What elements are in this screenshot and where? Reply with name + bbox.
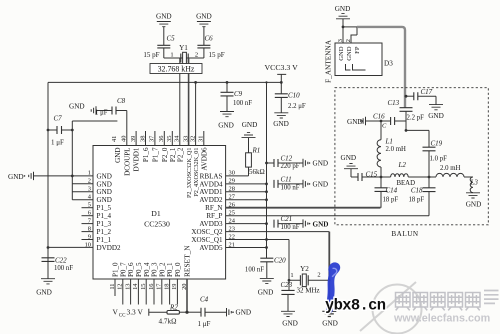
capacitor C17 [414,88,436,105]
svg-text:DCOUPL: DCOUPL [123,148,131,176]
svg-text:2.2 μF: 2.2 μF [288,103,306,110]
svg-text:CC2530: CC2530 [144,220,170,229]
svg-text:P0_6: P0_6 [127,262,135,277]
svg-text:C7: C7 [54,115,63,123]
svg-text:www.elecfans.com: www.elecfans.com [393,313,490,325]
svg-text:100 nF: 100 nF [233,100,252,107]
svg-text:P2_0: P2_0 [161,147,169,162]
wire VCC bus left [47,82,50,278]
wire XOSC32K_Q1 drop [179,58,181,146]
svg-text:C20: C20 [274,257,286,265]
capacitor C4 [198,296,227,329]
inductor L2 BEAD [381,161,430,187]
svg-text:2: 2 [317,272,320,279]
svg-text:15 pF: 15 pF [209,51,225,59]
wire RF_P pin25 [226,192,429,216]
pin 28 AVDD1 label [199,186,235,197]
svg-text:2: 2 [195,52,198,59]
svg-text:GND: GND [282,320,298,328]
svg-text:1 μF: 1 μF [51,139,64,147]
resistor R1 [246,138,261,176]
capacitor C11 [274,176,303,192]
svg-text:1: 1 [290,272,293,279]
wire AVDD5 pin21 [226,246,268,249]
svg-text:P0_3: P0_3 [151,262,159,277]
svg-text:13: 13 [124,284,131,290]
svg-text:2: 2 [345,39,352,42]
ground GND (above D3) [335,5,351,28]
svg-text:F_ANTENNA: F_ANTENNA [324,39,333,83]
crystal Y2 [288,265,330,287]
ground GND (right of C12) [303,159,328,168]
ground GND (right of C11) [303,180,328,189]
svg-text:220 pF: 220 pF [281,163,300,170]
svg-text:P2_4XOSC32K_01: P2_4XOSC32K_01 [193,148,200,197]
svg-text:1 μF: 1 μF [95,110,108,117]
svg-text:GND: GND [8,173,24,181]
svg-text:RF_P: RF_P [206,212,222,220]
svg-text:2.0 mH: 2.0 mH [386,146,406,153]
pin 16 P0_3 bottom [148,262,159,305]
svg-text:C10: C10 [288,92,300,100]
svg-text:33: 33 [182,136,189,142]
pin 10 DVDD2 [48,241,121,252]
svg-text:11: 11 [109,284,116,290]
svg-text:GND: GND [156,13,172,21]
svg-text:VCC3.3 V: VCC3.3 V [265,63,299,72]
ground GND (left of C16) [347,117,366,126]
svg-text:14: 14 [132,283,139,290]
svg-text:GND: GND [258,289,274,297]
svg-text:C12: C12 [281,155,293,163]
pin 18 P0_1 bottom [163,262,174,305]
svg-text:3.3 V: 3.3 V [127,308,144,317]
watermark url [393,313,490,325]
svg-text:12: 12 [117,284,124,290]
svg-text:DVDD1: DVDD1 [133,147,141,171]
pin 31 AVDD6 top [198,131,209,171]
pin 35 P2_1 top [166,131,177,162]
capacitor C14 [375,177,399,208]
capacitor C12 [267,155,304,170]
watermark text elecfans chinese [396,291,499,311]
svg-text:18 pF: 18 pF [409,197,425,204]
svg-text:GND: GND [36,289,52,297]
pin 2 GND [72,178,112,189]
pin 17 P0_2 bottom [156,262,167,305]
wire AVDD vertical [265,81,268,258]
svg-text:2: 2 [88,178,91,185]
svg-text:GND: GND [273,120,289,128]
svg-text:L2: L2 [398,161,407,169]
pin 40 DCOUPL top [121,136,132,176]
svg-text:100 nF: 100 nF [281,224,300,231]
watermark logo circle [360,282,422,334]
ground GND (below C9) [218,112,234,130]
svg-text:GND: GND [69,103,85,111]
svg-text:15 pF: 15 pF [143,51,159,59]
svg-text:L1: L1 [385,138,393,146]
svg-text:4.7kΩ: 4.7kΩ [159,318,177,326]
pin 3 GND [72,186,112,197]
capacitor C23 [281,280,294,311]
svg-text:P1_6: P1_6 [142,147,150,162]
svg-text:56kΩ: 56kΩ [249,168,265,176]
svg-text:P1_1: P1_1 [97,236,112,244]
svg-text:100 nF: 100 nF [245,267,264,274]
svg-text:31: 31 [198,136,205,142]
pin 5 P1_5 [82,202,112,213]
pin 4 GND [72,194,112,205]
svg-text:1.0 pF: 1.0 pF [430,156,448,163]
svg-text:C13: C13 [388,99,400,107]
power rail VCC [48,81,281,83]
svg-text:GND: GND [341,154,357,162]
pin 26 RF_N label [205,202,235,213]
svg-text:P1_5: P1_5 [97,204,112,212]
pin 7 P1_3 [82,217,112,228]
wire XOSC_Q1 pin22 [226,238,289,280]
svg-text:39: 39 [130,136,137,142]
inductor L3 [470,177,479,193]
capacitor C7 [48,115,72,147]
svg-text:C21: C21 [281,215,293,223]
label C23 32MHz [281,281,320,294]
pin 20 RESET_N bottom [181,245,192,312]
svg-text:C4: C4 [200,296,209,304]
node AVDD6 rail drop [194,81,197,146]
wire VCC3.3 rail bottom [113,308,168,319]
svg-text:100 nF: 100 nF [54,265,73,272]
ground GND (right of C4) [227,308,252,317]
svg-text:C6: C6 [205,35,214,43]
svg-text:ybx8.cn: ybx8.cn [325,297,386,315]
svg-text:38: 38 [139,136,146,142]
svg-text:34: 34 [174,135,181,142]
wire C8 to DCOUPL [126,111,128,146]
antenna part D3 box [335,43,393,76]
svg-text:GND: GND [114,148,122,163]
capacitor C21 [274,215,303,231]
pin 37 P1_7 top [149,131,160,162]
svg-text:RBLAS: RBLAS [200,172,223,180]
svg-text:9: 9 [88,233,91,240]
IC D1 CC2530 body [93,146,226,280]
svg-text:P0_0: P0_0 [174,262,182,277]
svg-text:RESET_N: RESET_N [183,245,192,277]
svg-text:GND: GND [97,196,112,204]
svg-text:100 nF: 100 nF [281,184,300,191]
wire crystal row [164,57,204,59]
pin 14 P0_5 bottom [132,262,143,305]
pin 8 P1_2 [82,225,112,236]
svg-text:32.768 kHz: 32.768 kHz [158,65,195,74]
svg-text:XOSC_Q2: XOSC_Q2 [191,228,223,236]
pin 36 P2_0 top [158,131,169,162]
ground GND (right of C21, bold) [303,219,328,228]
svg-text:D1: D1 [151,209,161,218]
svg-text:35: 35 [166,136,173,142]
wire C16 node to C19 row [405,121,429,132]
label F_ANTENNA [324,39,333,83]
svg-text:GND: GND [313,181,329,189]
wire RF_N pin26 [226,207,381,209]
svg-text:GND: GND [428,112,444,120]
pin 6 P1_4 [82,209,112,220]
svg-text:15: 15 [140,284,147,290]
wire XOSC_Q2 pin23 [226,231,330,233]
pin 13 P0_6 bottom [124,262,135,305]
svg-text:AVDD3: AVDD3 [199,220,223,228]
ground GND (above C6) [196,13,212,46]
wire AVDD1 pin28 [226,190,268,193]
svg-text:P0_7: P0_7 [119,262,127,277]
wire Y2 pin2 to gnd [328,232,331,312]
svg-text:GND: GND [196,13,212,21]
svg-text:P2_2: P2_2 [176,147,184,162]
capacitor C22 [42,248,74,279]
svg-text:C11: C11 [281,176,292,184]
capacitor C15 [358,171,382,182]
wire XOSC32K_Q2 drop [188,58,190,146]
svg-text:XOSC_Q1: XOSC_Q1 [191,236,223,244]
capacitor C19 [423,130,448,177]
wire AVDD4 pin29 [226,183,268,186]
capacitor C20 [245,257,286,279]
svg-text:C14: C14 [386,187,398,195]
svg-text:32: 32 [189,136,196,142]
ground GND (below C23) [281,311,298,327]
svg-text:GND: GND [97,180,112,188]
svg-text:18 pF: 18 pF [383,197,399,204]
ground GND (below L3) [466,193,482,209]
svg-text:P1_0: P1_0 [112,262,120,277]
wire antenna feed thick [343,27,405,108]
svg-text:BALUN: BALUN [391,230,419,238]
pin 32 P2_4XOSC32K_01 top [189,136,200,197]
antenna mark inside D3 [346,64,366,70]
svg-text:P0_1: P0_1 [166,262,174,277]
node antenna C17 branch [405,95,414,98]
svg-text:1: 1 [170,52,173,59]
label 56kOhm [249,168,265,176]
svg-text:GND: GND [97,172,112,180]
inductor 2.0mH (to L3) [429,165,473,177]
pin 33 P2_3XOSC32K_Q1 top [182,136,193,198]
svg-text:AVDD5: AVDD5 [199,244,223,252]
svg-text:P1_7: P1_7 [152,147,160,162]
label 32.768 kHz box [150,64,202,74]
wire C7 to GND net [71,121,118,200]
ground GND (below C22) [36,279,55,297]
svg-text:GND: GND [242,121,258,129]
svg-text:36: 36 [158,136,165,142]
ground GND (pin1 net) [8,172,34,181]
svg-text:GND: GND [313,160,329,168]
pin 1 GND [34,170,112,181]
svg-text:GND: GND [335,5,351,13]
svg-text:41: 41 [111,136,118,142]
svg-text:P2_3XOSC32K_Q1: P2_3XOSC32K_Q1 [186,148,193,199]
svg-text:GND: GND [97,188,112,196]
svg-text:20: 20 [181,284,188,290]
inductor L1 [377,121,406,177]
ground GND (below C10) [273,113,289,128]
svg-text:GND: GND [313,220,329,228]
svg-text:P0_5: P0_5 [135,262,143,277]
capacitor C8 [95,97,127,117]
svg-text:P1_3: P1_3 [97,220,112,228]
ground GND (below C17) [428,105,444,120]
ground GND (left of C8) [69,103,112,115]
svg-text:L3: L3 [470,179,479,187]
label D3 internal GND GND FP [338,46,361,61]
svg-text:C19: C19 [431,139,443,147]
pin 15 P0_4 bottom [140,262,151,305]
ground GND (below Y2 pin2) [322,311,338,327]
svg-text:GND: GND [338,46,345,61]
svg-text:6: 6 [88,209,91,216]
wire reset to C4 [187,311,201,313]
watermark ybx8.cn [325,297,386,315]
svg-text:3: 3 [337,39,344,42]
pin 27 AVDD2 label [199,194,235,205]
svg-text:32 MHz: 32 MHz [297,286,320,294]
svg-text:GND: GND [346,46,353,61]
svg-text:P0_2: P0_2 [158,262,166,277]
pin 19 P0_0 bottom [171,262,182,305]
ground GND (above C5) [156,13,172,46]
capacitor C18 [409,177,436,204]
svg-text:2.0 mH: 2.0 mH [440,165,460,172]
svg-text:5: 5 [88,202,91,209]
crystal Y1 [170,44,198,64]
svg-text:GND: GND [322,320,338,328]
pin 11 P1_0 bottom [109,262,120,296]
svg-text:Y2: Y2 [300,265,309,273]
svg-text:AVDD6: AVDD6 [200,147,208,171]
svg-text:GND: GND [236,309,252,317]
svg-text:8: 8 [88,225,91,232]
pin 22 XOSC_Q1 label [191,233,235,244]
pin 25 RF_P label [206,209,235,220]
pin 9 P1_1 [82,233,112,244]
wire AVDD3 pin24 [226,222,268,225]
svg-text:R2: R2 [169,304,178,312]
svg-text:2.2 pF: 2.2 pF [407,115,425,122]
svg-text:AVDD4: AVDD4 [199,180,223,188]
ground GND (above R1) [242,121,258,138]
ground GND (above C15) [341,154,359,177]
svg-text:AVDD1: AVDD1 [199,188,223,196]
svg-text:17: 17 [156,283,163,290]
pin 41 GND top [111,136,122,163]
watermark blue blob [326,262,340,313]
svg-text:16: 16 [148,284,155,290]
svg-text:19: 19 [171,284,178,290]
resistor R2 [159,304,189,326]
capacitor C9 [221,81,253,112]
svg-text:CC: CC [119,313,126,318]
svg-text:R1: R1 [252,147,261,155]
balun dashed box [335,88,488,225]
capacitor C6 [197,35,224,60]
svg-text:C8: C8 [117,97,126,105]
capacitor C5 [143,35,175,60]
pin 29 AVDD4 label [199,178,235,189]
wire AVDD2 pin27 [226,198,268,201]
svg-text:C9: C9 [234,90,243,98]
svg-text:C22: C22 [55,256,67,264]
svg-text:C5: C5 [167,35,176,43]
svg-text:GND: GND [218,122,234,130]
svg-text:P0_4: P0_4 [143,262,151,277]
svg-text:RF_N: RF_N [205,204,222,212]
capacitor C10 [275,82,306,112]
label BALUN [391,230,419,238]
svg-text:1 μF: 1 μF [198,320,211,328]
svg-text:D3: D3 [384,60,393,68]
svg-text:C17: C17 [421,88,433,96]
svg-text:P1_4: P1_4 [97,212,112,220]
svg-text:Y1: Y1 [179,44,188,52]
svg-text:1: 1 [88,170,91,177]
pin 39 DVDD1 top [130,131,141,172]
svg-text:C: C [382,123,387,130]
wire RBIAS pin30 [226,175,249,177]
svg-text:AVDD2: AVDD2 [199,196,223,204]
svg-text:10: 10 [85,241,91,248]
pin 23 XOSC_Q2 label [191,225,235,236]
svg-text:DVDD2: DVDD2 [97,244,121,252]
pin 24 AVDD3 label [199,217,235,228]
pin 21 AVDD5 label [199,241,235,252]
capacitor C16 [366,113,407,130]
svg-text:37: 37 [149,135,156,142]
ground GND (below C20) [258,278,274,296]
pin 2 D3 [345,27,357,43]
svg-text:C16: C16 [373,113,385,121]
svg-text:P1_2: P1_2 [97,228,112,236]
svg-text:C23: C23 [281,281,293,289]
svg-text:FP: FP [354,46,361,54]
svg-text:40: 40 [121,136,128,142]
svg-text:3: 3 [88,186,91,193]
svg-text:V: V [113,308,119,317]
svg-text:18: 18 [163,284,170,290]
svg-text:C18: C18 [411,187,423,195]
pin 3 D3 [337,19,344,43]
pin 30 RBLAS label [200,170,235,181]
svg-text:GND: GND [466,201,482,209]
pin 38 P1_6 top [139,131,150,162]
pin 34 P2_2 top [174,135,185,162]
power VCC3.3V symbol [265,63,299,84]
capacitor C13 [388,99,425,122]
pin 12 P0_7 bottom [117,262,128,305]
